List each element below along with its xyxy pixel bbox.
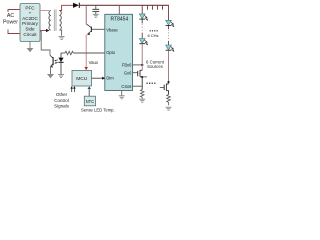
svg-text:Signals: Signals	[54, 104, 70, 109]
resistor R1 opto series	[65, 51, 73, 55]
svg-text:CSx6: CSx6	[121, 84, 132, 89]
node AC Power label	[3, 13, 18, 26]
node channel ellipsis dots lower	[146, 83, 155, 84]
wire Q1 base to Vbase pin	[92, 28, 105, 30]
LED D4 string1 bottom	[139, 39, 148, 46]
wire main output bus	[79, 4, 169, 6]
transistor Q1 pass NPN	[86, 24, 91, 34]
svg-text:Sources: Sources	[147, 64, 163, 69]
wire other control signals arrows into MCU bottom	[72, 88, 75, 92]
svg-text:Dim: Dim	[106, 76, 114, 81]
wire left string mid dotted	[141, 20, 143, 24]
node FB junction dot	[141, 64, 143, 66]
resistor R2 left sense	[140, 90, 144, 99]
wire AC bottom lead	[8, 30, 20, 34]
ground (primary, below PFC box)	[27, 42, 34, 53]
LED D5 string2 top	[166, 20, 175, 27]
LED D3 string1 top	[139, 14, 148, 21]
wire NTC to MCU with blue arrow	[88, 89, 90, 97]
node Other Control Signals label	[54, 92, 70, 109]
svg-text:AC2DC: AC2DC	[22, 16, 38, 21]
ground (below R3)	[166, 107, 172, 110]
wire bus channel ticks	[148, 5, 163, 10]
svg-text:MCU: MCU	[76, 76, 87, 82]
diode D2 optocoupler LED	[58, 53, 63, 74]
node 6 Current Sources label	[146, 59, 165, 69]
block NTC	[84, 96, 95, 106]
svg-text:Power: Power	[3, 20, 18, 26]
wire right string mid dotted	[168, 26, 170, 29]
svg-text:Vbase: Vbase	[106, 28, 118, 33]
wire opto feed from PFC to phototransistor collector	[41, 32, 51, 56]
wire CSx6 to M1 source	[133, 85, 143, 87]
ground (below R2)	[139, 99, 145, 102]
wire Vaux (Q1 emitter down to MCU)	[85, 35, 87, 68]
svg-text:Opto: Opto	[106, 50, 116, 55]
wire right string down to M2 drain	[168, 51, 170, 84]
wire VIN stub from bus to IC top	[118, 5, 120, 14]
wire M2 gate stub	[160, 87, 164, 89]
wire secondary bottom lead	[59, 30, 61, 36]
wire FBx6 to string node	[133, 64, 143, 66]
ground (primary, below Q2)	[47, 74, 54, 78]
transistor M2 right channel MOSFET	[164, 84, 168, 95]
opto coupling arrows	[55, 60, 58, 63]
wire from M1 source toward other channels	[142, 76, 147, 78]
wire primary top lead	[40, 10, 49, 12]
node M1 source junction dot	[141, 76, 143, 78]
resistor R3 right sense	[167, 95, 171, 106]
ground (below IC)	[119, 91, 125, 99]
node channel ellipsis dots upper	[150, 30, 158, 31]
svg-text:Other: Other	[56, 92, 68, 97]
diode D1 output rectifier	[73, 3, 79, 8]
wire Gx6 to M1 gate	[133, 72, 138, 74]
block PFC + AC2DC primary side circuit	[20, 4, 40, 42]
IC U1 RT8454	[105, 14, 133, 90]
svg-text:Gx6: Gx6	[124, 70, 132, 75]
svg-text:Circuit: Circuit	[23, 32, 37, 37]
transistor M1 left channel MOSFET	[138, 70, 143, 89]
svg-text:PFC: PFC	[25, 5, 35, 10]
svg-text:Vaux: Vaux	[89, 60, 99, 65]
wire Opto pin line	[73, 52, 105, 54]
svg-text:FBx6: FBx6	[122, 62, 132, 67]
wire primary bottom lead with arrowhead	[40, 30, 47, 32]
capacitor C1 output	[92, 5, 99, 14]
wire MCU to Dim pin with arrow	[92, 77, 103, 79]
wire left string to FB node and MOSFET drain	[141, 44, 143, 70]
svg-text:+: +	[29, 11, 32, 16]
svg-text:NTC: NTC	[86, 99, 95, 104]
ground (secondary return)	[59, 36, 65, 39]
svg-text:Side: Side	[25, 27, 35, 32]
transistor Q2 optocoupler phototransistor	[50, 55, 53, 66]
wire AC top lead	[8, 10, 20, 13]
transistor Q1 pass (Vbase) collector wire from bus	[85, 5, 87, 24]
svg-text:Sense LED Temp.: Sense LED Temp.	[81, 107, 115, 112]
transformer T1	[49, 11, 61, 31]
ground (below C1)	[93, 14, 99, 17]
LED D6 string2 bottom	[166, 45, 175, 52]
svg-text:RT8454: RT8454	[111, 17, 129, 23]
wire Q2 emitter	[50, 67, 52, 74]
wire left LED string drop	[141, 5, 143, 14]
node M2 drain junction dot	[167, 81, 169, 83]
wire right LED string drop	[168, 5, 170, 20]
svg-text:Primary: Primary	[22, 21, 39, 26]
svg-text:6 CHs: 6 CHs	[147, 33, 158, 38]
wire secondary top lead up to diode	[59, 5, 73, 10]
ground (below opto LED)	[58, 75, 64, 78]
block MCU	[72, 70, 92, 86]
svg-text:AC: AC	[7, 13, 15, 19]
svg-text:Control: Control	[54, 98, 69, 103]
